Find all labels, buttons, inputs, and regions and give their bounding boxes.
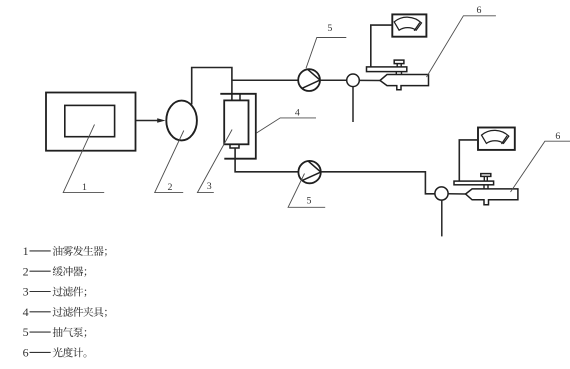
wire: buffer top riser — [192, 68, 232, 105]
leader 6 top — [427, 16, 496, 77]
leader 4 — [257, 118, 317, 133]
wire: bottom pump to junction — [321, 172, 435, 194]
leader 3 — [197, 130, 232, 193]
svg-text:1: 1 — [82, 182, 87, 193]
photometer 6 (bottom): body — [466, 189, 518, 205]
svg-text:2: 2 — [23, 264, 29, 278]
svg-text:5: 5 — [23, 325, 29, 339]
leader 2 — [155, 131, 184, 193]
photometer 6 (bottom): plate stem — [483, 185, 485, 189]
svg-text:3: 3 — [23, 285, 29, 299]
photometer 6 (top): mounting plate — [367, 67, 407, 72]
photometer 6 (bottom): meter dial face — [482, 130, 509, 143]
leader 5 top — [306, 38, 346, 69]
node: bottom junction — [435, 187, 448, 200]
svg-text:5: 5 — [327, 23, 332, 34]
node: top junction — [347, 74, 360, 87]
wire: top junction to photometer — [359, 79, 380, 81]
leader 1 — [63, 125, 104, 193]
photometer 6 (top): meter box — [392, 14, 426, 36]
pump 5 (top suction pump) — [298, 69, 320, 91]
photometer 6 (top): meter dial face — [394, 17, 421, 30]
photometer 6 (bottom): mounting plate — [454, 181, 494, 185]
buffer 2 (ellipse) — [166, 101, 197, 141]
svg-text:2: 2 — [168, 182, 173, 193]
wire: top meter lead — [371, 25, 393, 67]
svg-text:4: 4 — [23, 305, 29, 319]
photometer 6 (top): adjust knob — [394, 60, 404, 64]
wire: bottom meter lead — [459, 140, 478, 181]
photometer 6 (bottom): adjust knob — [481, 174, 491, 177]
svg-text:6: 6 — [477, 5, 482, 16]
svg-text:6: 6 — [555, 131, 560, 142]
filter element 3 — [224, 100, 248, 144]
wire: branch to top pump — [232, 79, 299, 81]
svg-text:3: 3 — [207, 181, 212, 192]
wire: bottom junction to photometer — [448, 193, 466, 195]
leader 6 bottom — [511, 141, 570, 192]
oil mist generator box 1 (outer) — [46, 93, 136, 151]
wire: top vent — [352, 87, 354, 122]
wire: top pump to junction — [320, 79, 347, 81]
svg-text:1: 1 — [23, 244, 29, 258]
wire: filter outlet to bottom pump — [235, 148, 299, 172]
leader 5 bottom — [288, 174, 325, 208]
filter top neck — [239, 94, 241, 101]
photometer 6 (top): body — [380, 75, 429, 90]
svg-text:4: 4 — [295, 107, 300, 118]
wire: generator output arrow — [136, 120, 159, 122]
svg-text:5: 5 — [307, 196, 312, 207]
photometer 6 (bottom): meter box — [478, 128, 515, 150]
svg-text:6: 6 — [23, 346, 29, 360]
oil mist generator box 1 (inner) — [65, 105, 115, 136]
pump 5 (bottom suction pump) — [298, 161, 320, 183]
photometer 6 (top): plate stem — [395, 72, 397, 75]
filter clamp 4 (bracket) — [220, 94, 256, 159]
wire: bottom vent — [441, 200, 443, 236]
filter bottom neck — [230, 144, 239, 148]
